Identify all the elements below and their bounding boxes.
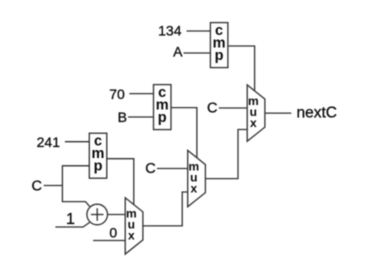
svg-text:241: 241 [37, 134, 61, 150]
adder X1 [87, 204, 108, 225]
wire C to mux U4 [219, 107, 247, 109]
svg-text:1: 1 [66, 211, 75, 228]
wire node C junction to cmp U3 second input [62, 166, 89, 186]
mux U6 (bottom left) [125, 198, 143, 254]
svg-text:134: 134 [158, 22, 182, 38]
wire mux U4 output to nextC [265, 112, 291, 114]
svg-text:p: p [158, 110, 167, 126]
wire 134 to cmp U1 [187, 30, 211, 32]
wire C to mux U5 [157, 168, 188, 170]
wire 241 to cmp U3 [65, 141, 89, 143]
wire 0 to mux U6 lower input [93, 240, 125, 242]
svg-text:B: B [118, 109, 127, 125]
wire 1 to adder X1 lower input [55, 222, 89, 227]
wire B to cmp U2 [128, 116, 154, 118]
svg-text:p: p [215, 48, 224, 64]
wire 70 to cmp U2 [129, 93, 153, 95]
wire mux U6 output to mux U5 lower input [143, 192, 188, 226]
mux U5 (middle) [188, 150, 206, 206]
svg-text:x: x [128, 229, 135, 243]
svg-text:A: A [173, 44, 183, 60]
wire A to cmp U1 [184, 52, 211, 54]
comparator U1 cmp [210, 23, 228, 68]
wire C input [44, 185, 63, 187]
svg-text:p: p [94, 159, 103, 175]
wire node C junction down to adder X1 top input [62, 186, 89, 207]
wire cmp U3 output to mux U6 select [107, 159, 134, 205]
wire cmp U1 output to mux U4 select [228, 46, 255, 94]
comparator U2 cmp [154, 85, 172, 130]
wire adder X1 output to mux U6 [108, 214, 125, 216]
svg-text:C: C [32, 178, 42, 194]
svg-text:nextC: nextC [297, 105, 338, 122]
svg-text:C: C [207, 101, 217, 117]
svg-text:C: C [145, 161, 155, 177]
svg-text:0: 0 [109, 225, 117, 241]
svg-text:x: x [250, 116, 257, 130]
mux U4 (top right) [247, 85, 265, 141]
wire mux U5 output to mux U4 lower input [205, 130, 247, 179]
svg-text:x: x [190, 181, 197, 195]
comparator U3 cmp [89, 133, 107, 178]
wire cmp U2 output to mux U5 select [171, 108, 197, 158]
svg-text:70: 70 [109, 86, 125, 102]
